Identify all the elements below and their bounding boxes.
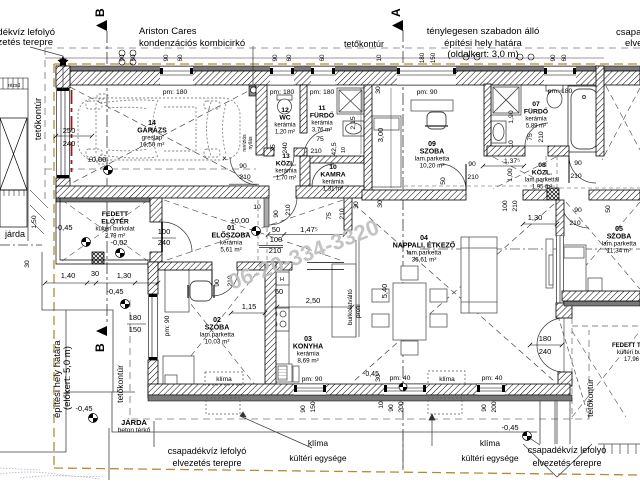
svg-text:30: 30 [24, 260, 31, 268]
section B-B ext left [0, 244, 42, 246]
svg-text:210: 210 [239, 174, 251, 181]
room05 south wall insulation [564, 301, 640, 306]
level marker bottom right [523, 432, 532, 441]
room05 upper diagonal [606, 86, 640, 150]
rain text top right [616, 27, 640, 49]
room05 south wall [562, 291, 640, 301]
svg-text:FEDETT TER: FEDETT TER [612, 343, 640, 349]
hall width dashed 2 [266, 200, 268, 262]
svg-text:lam.parketta: lam.parketta [602, 241, 637, 248]
dimension tick marks [43, 134, 564, 347]
svg-text:2,50: 2,50 [306, 296, 321, 305]
svg-text:beton térkő: beton térkő [118, 427, 151, 434]
window room09 pm90 [397, 66, 456, 85]
walk dim sep [127, 323, 146, 325]
porch door dim line [152, 237, 176, 239]
svg-text:09: 09 [428, 141, 436, 148]
top dim chain line [45, 57, 604, 59]
porch diagonal 2 [62, 200, 148, 261]
svg-text:ELŐTÉR: ELŐTÉR [101, 217, 129, 226]
terrace door french [537, 318, 564, 372]
svg-text:-0,45: -0,45 [55, 223, 72, 232]
hall width dashed 1 [257, 200, 259, 262]
parking box with X [0, 118, 27, 190]
hall diagonal 1 [164, 200, 343, 261]
window WC12 pm180 [270, 66, 294, 85]
svg-text:építési hely határa: építési hely határa [444, 38, 522, 49]
garage window dim line [56, 135, 92, 137]
room05 label [607, 226, 632, 241]
svg-text:10,03 m²: 10,03 m² [205, 339, 230, 346]
room09 chair [425, 112, 448, 129]
toilet WC12 [277, 95, 292, 114]
room02 west wall upper [148, 262, 158, 294]
corridor dashed line [355, 185, 555, 187]
terrace dashed north [572, 325, 640, 327]
kitchen counter with fridge [271, 267, 289, 369]
street slope lines [0, 78, 28, 89]
svg-text:01: 01 [227, 225, 235, 232]
svg-text:12: 12 [281, 107, 289, 114]
right outer wall [596, 66, 604, 156]
svg-text:SZOBA: SZOBA [607, 234, 632, 241]
svg-text:210: 210 [339, 208, 346, 220]
svg-text:tetőkontúr: tetőkontúr [344, 39, 384, 49]
shower bath11 [337, 88, 364, 114]
kamra east wall [364, 85, 372, 198]
svg-text:NAPPALI, ÉTKEZŐ: NAPPALI, ÉTKEZŐ [393, 241, 456, 250]
ground outline bottom left [0, 252, 537, 480]
svg-text:(előkert: 5,0 m): (előkert: 5,0 m) [62, 346, 73, 410]
svg-text:90: 90 [300, 405, 307, 413]
window living2 pm40 [477, 384, 505, 395]
svg-text:150: 150 [310, 401, 317, 413]
svg-text:5,40: 5,40 [380, 284, 389, 299]
room02 north wall left [148, 262, 212, 270]
washbasin bath11 [343, 121, 364, 136]
ridge dash-dot line [420, 248, 640, 250]
bathtub bath07 [568, 86, 601, 152]
level marker bottom left [89, 414, 98, 423]
svg-text:90: 90 [272, 54, 279, 62]
porch edge lines [56, 198, 150, 264]
svg-text:kültéri egysége: kültéri egysége [289, 453, 346, 463]
hall08 label [532, 162, 552, 177]
bath11 south wall [307, 156, 364, 163]
svg-text:H: H [280, 277, 284, 283]
room09 desk [411, 100, 453, 111]
corr dim line [523, 223, 557, 225]
svg-text:10: 10 [508, 140, 515, 148]
svg-text:180: 180 [539, 334, 552, 343]
garage south wall insulation [56, 198, 150, 202]
svg-text:pm: 90: pm: 90 [417, 89, 438, 96]
toilet bath07 [546, 85, 563, 108]
rain text bottom right [528, 445, 607, 468]
bottom wall insulation [148, 395, 572, 401]
svg-text:30: 30 [91, 269, 99, 278]
porch diagonal 1 [62, 200, 148, 261]
svg-text:3,76 m²: 3,76 m² [312, 128, 332, 134]
corridor width dashed 1 [545, 156, 547, 199]
svg-text:KONYHA: KONYHA [293, 344, 323, 351]
svg-text:03: 03 [304, 336, 312, 343]
svg-text:rézsű: rézsű [8, 83, 20, 89]
rain leader top left [30, 47, 66, 90]
living diagonal 2 [354, 204, 554, 381]
svg-text:klíma: klíma [216, 376, 232, 383]
revision door garage [229, 157, 259, 185]
fence ticks bottom right [598, 444, 640, 454]
svg-text:8,69 m²: 8,69 m² [297, 358, 318, 365]
wc south wall left [264, 148, 274, 156]
svg-text:lam.parketta: lam.parketta [407, 250, 442, 257]
window bath11 pm180 [311, 66, 335, 85]
terrain contour lines [0, 468, 105, 479]
svg-text:210: 210 [570, 173, 582, 180]
garage diagonal 1 [70, 87, 256, 184]
hall08 diagonal 2 [493, 157, 556, 189]
svg-text:1,20 m²: 1,20 m² [275, 130, 295, 136]
svg-text:90: 90 [163, 54, 170, 62]
svg-text:tetőkontúr: tetőkontúr [115, 365, 125, 403]
roof contour right vert [588, 330, 590, 419]
svg-text:42,5: 42,5 [331, 142, 338, 155]
hall13 door jamb [264, 198, 269, 227]
svg-text:210: 210 [467, 174, 479, 181]
porch east wall lower [150, 252, 162, 264]
svg-text:pm: 40: pm: 40 [390, 375, 411, 382]
ariston text [139, 26, 245, 49]
svg-text:B: B [93, 8, 107, 17]
svg-text:1,40: 1,40 [61, 271, 76, 280]
svg-text:pm: 180: pm: 180 [163, 89, 188, 96]
rain text top left [0, 27, 55, 48]
room05 diagonal 1 [566, 202, 640, 289]
svg-text:90: 90 [214, 279, 221, 287]
rain text bottom left [168, 446, 247, 468]
svg-text:Ariston Cares: Ariston Cares [139, 26, 197, 37]
shower bath07 [491, 85, 521, 115]
svg-text:210: 210 [538, 131, 545, 143]
svg-text:210: 210 [512, 200, 519, 212]
roof valley diagonal SE [558, 316, 589, 418]
svg-text:10: 10 [329, 164, 337, 171]
svg-text:B: B [93, 343, 107, 352]
kamra door [312, 164, 334, 186]
svg-text:pm: 40: pm: 40 [482, 375, 503, 382]
svg-text:200: 200 [491, 401, 498, 413]
svg-text:elvezetés terepre: elvezetés terepre [172, 458, 241, 468]
svg-text:JÁRDA: JÁRDA [121, 418, 147, 427]
hall08 diagonal 1 [493, 157, 556, 189]
roof contour dashed top [45, 47, 640, 49]
klima dotted box kitchen [205, 372, 243, 385]
room02 desk chair [188, 281, 214, 301]
room02 dim line [231, 312, 265, 314]
terrace door bottom corner [558, 372, 572, 386]
svg-text:5,61 m²: 5,61 m² [220, 247, 241, 254]
svg-text:SZOBA: SZOBA [205, 325, 230, 332]
window kitchen pm90 [294, 384, 326, 395]
svg-text:kondenzációs kombicirkó: kondenzációs kombicirkó [139, 38, 245, 49]
svg-text:10,20 m²: 10,20 m² [420, 163, 445, 170]
svg-text:30: 30 [375, 374, 382, 382]
svg-text:kültéri egysége: kültéri egysége [461, 453, 518, 463]
hall diagonal 2 [164, 200, 343, 261]
svg-text:90: 90 [388, 404, 395, 412]
svg-text:100: 100 [502, 200, 509, 212]
svg-text:ténylegesen szabadon álló: ténylegesen szabadon álló [427, 26, 540, 37]
svg-text:08: 08 [538, 162, 546, 169]
svg-text:30: 30 [353, 201, 360, 209]
bath07 south wall left [487, 146, 525, 156]
kitchen label [293, 336, 323, 351]
svg-text:60: 60 [177, 54, 184, 62]
svg-text:90: 90 [574, 160, 582, 167]
svg-text:11: 11 [318, 105, 325, 112]
svg-text:(oldalkert: 3,0 m): (oldalkert: 3,0 m) [447, 49, 518, 60]
svg-text:pm: 180: pm: 180 [310, 89, 335, 96]
svg-text:kerámia: kerámia [274, 123, 296, 129]
level marker walk [121, 300, 130, 309]
top outer wall [56, 71, 640, 85]
svg-text:pm: 180: pm: 180 [270, 89, 295, 96]
dining table with chairs [372, 266, 447, 355]
svg-text:járda: járda [4, 229, 25, 239]
wc bath divider [300, 85, 307, 133]
klima leader left [240, 412, 312, 448]
building limit left vertical [52, 340, 73, 418]
hall01 label [212, 225, 251, 240]
dim line 137 [483, 165, 524, 167]
room02 diagonal 2 [160, 265, 263, 395]
svg-text:90: 90 [239, 163, 247, 170]
svg-text:-0,45: -0,45 [106, 287, 123, 296]
roof contour dashed left [44, 48, 46, 200]
svg-text:200: 200 [398, 401, 405, 413]
window garage top pm180 [160, 66, 193, 85]
svg-text:klíma: klíma [439, 376, 455, 383]
living east wall bottom corner [556, 303, 572, 318]
window living pm40 [384, 384, 426, 395]
svg-text:240: 240 [282, 142, 289, 154]
jarda bottom label [118, 418, 151, 434]
level marker front [82, 238, 91, 247]
level marker porch [116, 249, 125, 258]
room05 door [561, 200, 589, 228]
svg-text:FÜRDŐ: FÜRDŐ [524, 107, 548, 116]
section line A-A [402, 30, 404, 470]
svg-text:tetőkontúr: tetőkontúr [585, 379, 595, 417]
svg-text:100: 100 [270, 235, 283, 244]
svg-text:nyílás: nyílás [248, 136, 254, 150]
room05 diagonal 2 [566, 202, 640, 289]
klima outdoor unit right [428, 398, 462, 414]
wc door [273, 156, 294, 177]
svg-text:10: 10 [341, 147, 347, 153]
svg-text:16,50 m²: 16,50 m² [140, 142, 165, 149]
bath11 label [310, 105, 334, 120]
level marker hall [252, 227, 261, 236]
left wall bottom corner [56, 178, 70, 196]
living label [393, 235, 456, 250]
roof contour porch vert [129, 300, 131, 419]
wc12 label [279, 107, 290, 122]
section marker B bottom [93, 326, 107, 352]
svg-text:90: 90 [550, 54, 557, 62]
svg-text:KÖZL.: KÖZL. [532, 168, 552, 177]
svg-text:07: 07 [532, 101, 540, 108]
svg-text:SZOBA: SZOBA [420, 149, 445, 156]
svg-text:ELŐSZOBA: ELŐSZOBA [212, 231, 251, 240]
kitchen dim line [277, 306, 352, 308]
svg-text:1,31 m²: 1,31 m² [323, 187, 343, 193]
roof contour garage horiz [45, 168, 256, 170]
svg-text:1,70 m²: 1,70 m² [276, 176, 296, 182]
room02 north wall right [237, 262, 292, 270]
sliding window living east [556, 236, 564, 308]
svg-text:75: 75 [527, 133, 534, 141]
bath07 west wall [484, 84, 491, 156]
fire wall red line [71, 90, 73, 172]
svg-text:75: 75 [326, 212, 333, 220]
svg-text:elvezetés terepre: elvezetés terepre [532, 458, 601, 468]
svg-text:1,95 m²: 1,95 m² [532, 185, 552, 191]
boiler kombicirko [249, 86, 258, 96]
svg-text:75: 75 [270, 144, 277, 152]
hall east wall [344, 196, 352, 230]
svg-text:±0,00: ±0,00 [231, 216, 250, 225]
kitchen west wall [265, 262, 276, 384]
corridor width dashed 2 [556, 156, 558, 199]
hall dim line [268, 234, 345, 236]
section marker B top [93, 8, 107, 31]
room02 wardrobe [165, 270, 189, 312]
level marker garage [104, 166, 113, 175]
svg-text:50: 50 [272, 225, 280, 234]
svg-text:250: 250 [63, 126, 76, 135]
living east wall top [556, 200, 564, 236]
svg-text:240: 240 [63, 139, 76, 148]
living diagonal 1 [354, 204, 554, 381]
svg-text:1,90: 1,90 [508, 110, 515, 123]
svg-text:elvezetés terepre: elvezetés terepre [0, 37, 53, 48]
ground lines bottom right [523, 401, 592, 477]
svg-text:11,34 m²: 11,34 m² [607, 248, 631, 255]
svg-text:KÖZL.: KÖZL. [276, 159, 296, 168]
kitchen stove [268, 308, 289, 331]
svg-text:210: 210 [310, 148, 322, 155]
klima text bottom left [289, 438, 346, 463]
svg-text:90: 90 [574, 207, 582, 214]
burkolatvalto text [347, 289, 362, 325]
svg-text:1,47⁵: 1,47⁵ [300, 225, 318, 234]
svg-text:60: 60 [561, 54, 568, 62]
room02 diagonal 1 [160, 265, 263, 395]
svg-text:60: 60 [319, 54, 326, 62]
svg-text:2,15: 2,15 [350, 116, 357, 129]
terrace diagonal 1 [572, 331, 640, 417]
svg-text:10: 10 [378, 401, 385, 409]
svg-text:A: A [389, 8, 403, 17]
svg-text:60: 60 [275, 287, 283, 296]
svg-text:lam.parketta: lam.parketta [200, 332, 235, 339]
svg-text:36,61 m²: 36,61 m² [412, 257, 437, 264]
svg-text:pm: 90: pm: 90 [164, 315, 171, 336]
svg-text:csapadékvíz lefolyó: csapadékvíz lefolyó [168, 446, 247, 456]
svg-text:csapadékvíz lefolyó: csapadékvíz lefolyó [528, 445, 607, 455]
svg-text:KAMRA: KAMRA [320, 172, 345, 179]
property line top [54, 63, 640, 65]
dim circles top [119, 50, 534, 65]
street edge vertical [27, 78, 29, 241]
bottom outer wall [148, 384, 570, 395]
porch column [92, 252, 104, 264]
svg-text:180: 180 [129, 313, 142, 322]
property line bottom [54, 468, 640, 475]
svg-text:1,37⁵: 1,37⁵ [504, 158, 520, 165]
bath07 label [524, 101, 548, 116]
svg-text:90: 90 [468, 161, 476, 168]
room05 upper diagonal 2 [602, 88, 640, 160]
svg-text:kerámia: kerámia [322, 180, 344, 186]
room09 south wall [362, 190, 466, 200]
svg-text:kerámia: kerámia [220, 240, 243, 247]
dim vline 215 [360, 88, 362, 154]
room05 bed [562, 245, 586, 304]
svg-text:kerámia: kerámia [297, 351, 320, 358]
svg-text:pm: 180: pm: 180 [548, 88, 573, 95]
svg-text:elvezetés terepre: elvezetés terepre [625, 38, 640, 49]
porch dim line [45, 282, 158, 284]
section marker A top [389, 8, 403, 31]
svg-text:GARÁZS: GARÁZS [137, 126, 167, 135]
property line left [53, 64, 55, 468]
klima dotted box living [428, 371, 465, 384]
svg-text:150: 150 [430, 52, 437, 63]
svg-text:burkolatváltó: burkolatváltó [347, 289, 354, 325]
hall08 door [569, 156, 596, 183]
svg-text:×: × [222, 154, 227, 163]
driveway box [0, 190, 27, 227]
terrace label [612, 343, 640, 363]
svg-text:-0,02: -0,02 [110, 238, 127, 247]
svg-text:90: 90 [481, 404, 488, 412]
room02 label [205, 317, 230, 332]
room02 bed [163, 356, 194, 394]
bath07 door [525, 123, 548, 146]
svg-text:kerámia: kerámia [311, 121, 333, 127]
svg-text:60: 60 [286, 54, 293, 62]
svg-text:klíma: klíma [480, 438, 501, 448]
sidewalk paving marks [30, 190, 48, 234]
room09 door [440, 164, 466, 190]
svg-text:10: 10 [253, 204, 261, 211]
section line B-B [106, 31, 108, 324]
room05 north wall [589, 190, 640, 200]
room09 bed [372, 116, 401, 187]
hall threshold lines [259, 246, 283, 248]
klima leader right [429, 414, 435, 446]
hall13 label [276, 153, 296, 168]
svg-text:lam.parkettál: lam.parkettál [525, 178, 559, 184]
svg-text:FÜRDŐ: FÜRDŐ [310, 111, 334, 120]
svg-text:kültéri burk: kültéri burk [617, 350, 640, 356]
svg-text:240: 240 [539, 347, 552, 356]
svg-text:210: 210 [569, 220, 581, 227]
svg-text:05: 05 [615, 226, 623, 233]
